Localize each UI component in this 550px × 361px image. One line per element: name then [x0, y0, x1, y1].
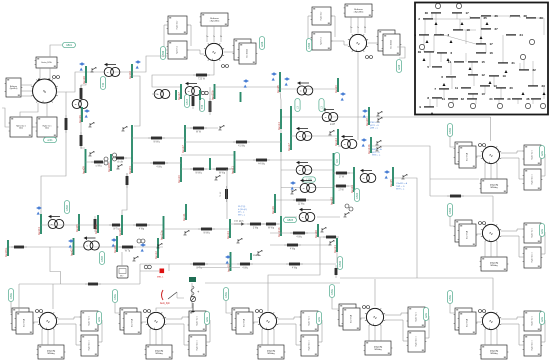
- svg-text:bus25b: bus25b: [210, 90, 214, 100]
- series RLC branch: [189, 277, 200, 312]
- breaker glyph: [376, 117, 382, 122]
- goto tag capG1: [447, 291, 452, 304]
- inset bus 3: [434, 33, 450, 37]
- line impedance L20a: [290, 232, 308, 239]
- wire 155-row: [181, 154, 235, 156]
- svg-text:W Tq: W Tq: [196, 268, 202, 270]
- svg-text:Hydro Gov: Hydro Gov: [177, 21, 179, 30]
- svg-text:Hydro Gov 1: Hydro Gov 1: [197, 340, 199, 350]
- svg-text:bus17: bus17: [181, 145, 185, 153]
- goto tag G7r: [423, 308, 428, 321]
- goto tag c2: [447, 124, 452, 137]
- bus bus10: [226, 252, 230, 272]
- breaker glyph: [116, 164, 122, 169]
- bus bus28: [365, 107, 369, 126]
- inset generator g: [520, 54, 525, 59]
- inset generator g: [435, 3, 440, 8]
- goto tag g7: [99, 252, 104, 265]
- svg-text:bus11: bus11: [182, 213, 186, 221]
- inset load arrow: [426, 40, 429, 43]
- wire 146-row to feeder: [372, 146, 430, 196]
- svg-text:4 Wq: 4 Wq: [292, 268, 298, 270]
- wire 245-row: [270, 244, 330, 246]
- wire tag to G4: [11, 302, 12, 314]
- svg-text:Ta: Ta: [357, 27, 359, 29]
- svg-text:≈: ≈: [363, 176, 365, 180]
- synchronous machine G3: [454, 220, 545, 271]
- fault breaker: [160, 290, 184, 305]
- wire staircase: [50, 247, 61, 284]
- svg-text:21: 21: [512, 61, 516, 65]
- wire 278-row: [340, 277, 414, 279]
- breaker glyph: [375, 140, 381, 145]
- goto tag t30: [100, 77, 105, 90]
- svg-text:4 Wq: 4 Wq: [139, 229, 145, 231]
- svg-text:20: 20: [510, 86, 514, 90]
- svg-text:29: 29: [540, 16, 544, 20]
- inset bus 7: [434, 87, 449, 91]
- bus bus24: [334, 129, 338, 146]
- svg-text:∿: ∿: [373, 315, 377, 321]
- goto tag t9l: [306, 39, 311, 52]
- svg-text:∿: ∿: [489, 231, 493, 237]
- svg-text:cf cfa: cf cfa: [117, 162, 123, 164]
- svg-text:36: 36: [526, 97, 530, 101]
- inset bus 34: [489, 97, 504, 101]
- bus bus06a: [94, 215, 98, 234]
- bus bus02: [128, 64, 132, 79]
- goto tag t9r: [396, 60, 401, 73]
- inset bus 12: [468, 73, 485, 77]
- wire G8 drop: [152, 62, 214, 88]
- svg-text:bus03: bus03: [128, 166, 132, 174]
- line impedance L10b: [237, 263, 253, 270]
- svg-text:11: 11: [455, 86, 458, 90]
- bus bus24b: [367, 137, 371, 154]
- inset bus 30: [425, 11, 441, 15]
- feeder wire G3: [492, 196, 494, 222]
- line impedance L17v: [192, 93, 195, 109]
- svg-text:Exc ST1A: Exc ST1A: [466, 230, 469, 239]
- inset load arrow: [431, 112, 434, 115]
- svg-text:_A_: _A_: [152, 327, 156, 330]
- svg-text:bus24: bus24: [334, 138, 338, 146]
- measurement arrows: [290, 181, 296, 189]
- svg-text:wr0x: wr0x: [541, 150, 544, 156]
- svg-text:Hydro Gov 1: Hydro Gov 1: [89, 340, 91, 350]
- line impedance L20b: [323, 236, 339, 239]
- bus bus03: [128, 125, 132, 174]
- line impedance L22b: [333, 185, 349, 192]
- line impedance L31a: [85, 283, 101, 286]
- instrument pair: [345, 204, 353, 211]
- inset bus 13: [480, 84, 497, 88]
- bus bus13: [226, 219, 230, 239]
- svg-text:[Gbp/wRj]MW/deg: [Gbp/wRj]MW/deg: [490, 185, 499, 189]
- wire 142-row: [185, 141, 281, 143]
- bus bus11: [182, 204, 186, 221]
- svg-text:Exc ST1A: Exc ST1A: [466, 152, 469, 161]
- wire T20 e: [317, 216, 340, 218]
- svg-text:W Wq: W Wq: [219, 173, 226, 175]
- inset bus 21: [498, 61, 515, 65]
- breaker glyph: [343, 212, 349, 217]
- wire 264-row: [140, 263, 336, 265]
- bus bus12: [154, 238, 158, 259]
- wire 87-row east: [215, 86, 281, 88]
- svg-text:Hydro Gov 1: Hydro Gov 1: [532, 252, 534, 262]
- inset bus 23: [528, 84, 545, 88]
- bus bus35: [389, 167, 393, 187]
- svg-text:_A_: _A_: [487, 239, 491, 242]
- transformer T7: [84, 236, 100, 250]
- bus bus09: [81, 149, 85, 174]
- wire 72-row: [66, 72, 132, 92]
- inset bus 19: [489, 74, 506, 78]
- wire to tag: [50, 45, 62, 57]
- wire 284-row: [19, 283, 140, 285]
- inset load arrow: [486, 22, 489, 25]
- bus bus14b: [280, 133, 282, 152]
- bus bus31: [333, 238, 337, 253]
- transformer T39: [72, 99, 88, 108]
- bus bus30: [82, 66, 86, 84]
- wire G9 long drop: [357, 53, 359, 141]
- bus bus19: [271, 194, 275, 214]
- svg-text:39: 39: [418, 50, 422, 54]
- wire 162-row: [86, 158, 133, 162]
- feeder G1: [414, 278, 493, 310]
- transformer T28: [322, 108, 338, 122]
- line impedance L16b: [213, 168, 231, 175]
- svg-text:T30: T30: [102, 82, 105, 87]
- wire 169-row: [181, 168, 235, 170]
- inset connector web: [431, 13, 433, 19]
- svg-text:≈: ≈: [303, 186, 305, 190]
- inset generator g: [470, 103, 475, 108]
- bus bus16t: [199, 90, 201, 100]
- wire 170-row: [281, 169, 334, 171]
- svg-text:Exc ST1A: Exc ST1A: [243, 318, 246, 327]
- transformer T23: [360, 169, 376, 183]
- inset load arrow: [522, 92, 525, 95]
- svg-text:∿: ∿: [46, 319, 50, 325]
- svg-text:wr0x: wr0x: [541, 228, 544, 234]
- breaker circles: [201, 91, 208, 94]
- goto tag t8r: [259, 37, 264, 50]
- bus bus32: [250, 253, 252, 260]
- breaker glyph: [256, 250, 262, 255]
- wire to T24: [338, 145, 344, 147]
- svg-text:P/W bar: P/W bar: [253, 254, 261, 257]
- bus bus22: [329, 153, 333, 205]
- inset bus 11: [455, 86, 471, 90]
- inset bus 36: [526, 97, 541, 101]
- svg-text:17 W: 17 W: [338, 190, 344, 192]
- line impedance L9L: [11, 246, 27, 249]
- svg-text:GB03: GB03: [449, 207, 452, 214]
- inset bus 31: [442, 97, 458, 101]
- wire drop x140: [132, 76, 140, 126]
- svg-text:wr09: wr09: [398, 64, 401, 70]
- goto tag capG4: [8, 289, 13, 302]
- line impedance L6b: [133, 224, 150, 231]
- goto tag w10: [44, 137, 57, 142]
- inset load arrow: [450, 40, 453, 43]
- svg-text:Hydro Tur 1: Hydro Tur 1: [532, 228, 534, 237]
- synchronous machine G9: [308, 4, 401, 59]
- line impedance L17c: [233, 141, 250, 148]
- line impedance L3a: [148, 137, 165, 144]
- line impedance L13b: [263, 223, 279, 230]
- bus bus08t: [107, 154, 111, 172]
- line impedance Lv2: [80, 132, 83, 149]
- goto tag capG5: [112, 290, 117, 303]
- svg-text:10: 10: [482, 92, 486, 96]
- svg-text:3 Wq: 3 Wq: [253, 228, 259, 230]
- svg-text:GB01: GB01: [66, 44, 73, 47]
- svg-text:[Gbp/wRj]MW/deg: [Gbp/wRj]MW/deg: [47, 351, 56, 355]
- svg-text:Ta: Ta: [213, 36, 215, 38]
- svg-text:≈: ≈: [302, 215, 304, 219]
- goto tag cp1: [295, 99, 300, 112]
- svg-text:∿: ∿: [489, 153, 493, 159]
- svg-text:n22: n22: [336, 158, 339, 163]
- transformer T26: [296, 127, 312, 141]
- svg-text:34: 34: [489, 97, 493, 101]
- svg-text:4 Wq: 4 Wq: [156, 167, 162, 169]
- line impedance L9a: [91, 161, 106, 168]
- breaker glyph: [214, 175, 220, 180]
- svg-text:[Gbp/wRj]MW/deg: [Gbp/wRj]MW/deg: [155, 351, 164, 355]
- svg-text:Hydro Gov 1: Hydro Gov 1: [532, 174, 534, 184]
- svg-text:bus08t: bus08t: [107, 163, 111, 172]
- svg-text:bus07: bus07: [69, 248, 73, 256]
- svg-text:wr0x: wr0x: [98, 316, 101, 322]
- svg-text:bus06: bus06: [118, 228, 122, 236]
- wire tag to G7: [332, 298, 339, 310]
- goto tag G2r: [539, 146, 544, 159]
- svg-text:22: 22: [533, 68, 537, 72]
- line impedance L34a: [447, 195, 464, 198]
- wire gov feedback: [2, 108, 10, 127]
- wire red stub: [140, 270, 159, 272]
- svg-text:bus09L: bus09L: [4, 247, 8, 257]
- synchronous machine G10: [5, 57, 60, 103]
- inset bus 5: [427, 65, 442, 69]
- bus bus06: [118, 215, 122, 236]
- bus bus07: [69, 238, 73, 256]
- transformer T17: [154, 89, 170, 98]
- bus bus26: [334, 78, 338, 93]
- measurement arrows: [384, 170, 390, 178]
- bus bus16: [177, 157, 181, 183]
- breaker glyph: [183, 230, 189, 235]
- svg-text:≈: ≈: [325, 115, 327, 119]
- bus bus04: [37, 214, 41, 235]
- bus bus21b: [277, 216, 281, 237]
- svg-text:L30B: L30B: [306, 179, 312, 182]
- goto tag capG6: [223, 288, 228, 301]
- svg-text:≈: ≈: [86, 244, 88, 248]
- breaker glyph: [90, 67, 96, 72]
- svg-text:W W: W W: [196, 132, 202, 134]
- inset bus 27: [481, 27, 498, 31]
- svg-text:[Gbp/wRj]MW/deg: [Gbp/wRj]MW/deg: [490, 351, 499, 355]
- wire busE drop: [122, 173, 127, 215]
- svg-text:17 W: 17 W: [339, 177, 345, 179]
- instrument pair: [104, 157, 108, 165]
- wire stub: [152, 93, 158, 95]
- line impedance L25a: [193, 74, 210, 81]
- feeder G4: [52, 284, 54, 309]
- measurement block: [117, 266, 128, 278]
- measurement arrows: [84, 109, 90, 117]
- goto tag gt17: [184, 95, 189, 108]
- goto tag G3r: [539, 224, 544, 237]
- line impedance Lw: [65, 115, 68, 133]
- bus bus17t: [175, 90, 177, 100]
- svg-text:Lm1 p/p/s: Lm1 p/p/s: [234, 221, 245, 223]
- svg-text:4 Wq: 4 Wq: [242, 268, 248, 270]
- wire G9 cap: [397, 47, 405, 58]
- svg-text:bus37: bus37: [177, 92, 181, 100]
- instrument pair: [137, 239, 145, 243]
- inset bus 20: [496, 86, 513, 90]
- inset load arrow: [489, 81, 492, 84]
- measurement arrows: [36, 206, 42, 214]
- line impedance Lv3: [209, 98, 212, 115]
- svg-text:12: 12: [482, 73, 486, 77]
- svg-text:Hydro Tur 1: Hydro Tur 1: [532, 316, 534, 325]
- svg-text:bus31: bus31: [333, 245, 337, 253]
- inset load arrow: [443, 83, 446, 86]
- svg-text:≈: ≈: [107, 70, 109, 74]
- svg-text:17: 17: [466, 11, 470, 15]
- svg-text:_A_: _A_: [487, 327, 491, 330]
- svg-text:W Wq: W Wq: [153, 142, 160, 144]
- svg-text:W Wq: W Wq: [195, 173, 202, 175]
- bus bus12a: [159, 216, 163, 240]
- svg-text:cf Wq: cf Wq: [96, 166, 103, 168]
- svg-text:wr0x: wr0x: [318, 316, 321, 322]
- inset bus 1: [414, 33, 429, 37]
- svg-text:_A_: _A_: [371, 323, 375, 326]
- inset bus 6: [437, 51, 453, 55]
- bus bus14: [277, 109, 281, 130]
- breaker glyph: [218, 125, 224, 130]
- goto tag G1r: [539, 312, 544, 325]
- svg-text:wr01: wr01: [47, 139, 53, 142]
- svg-text:bus27: bus27: [287, 143, 291, 151]
- svg-text:bus16: bus16: [177, 175, 181, 183]
- svg-text:W Tq: W Tq: [125, 251, 131, 253]
- wire stub 186: [334, 185, 355, 187]
- svg-text:bus24b: bus24b: [367, 144, 371, 154]
- svg-text:11 Wq: 11 Wq: [298, 204, 305, 206]
- svg-text:Exc ST1A: Exc ST1A: [23, 318, 26, 327]
- svg-text:W Wq: W Wq: [268, 228, 275, 230]
- measurement arrows: [361, 138, 367, 146]
- wire 233-row: [270, 232, 318, 234]
- svg-text:Hydro Tur: Hydro Tur: [321, 37, 323, 45]
- inset bus 16: [476, 51, 493, 55]
- measurement arrows: [135, 60, 141, 68]
- phasor arrow: [234, 221, 245, 226]
- inset load arrow: [469, 67, 472, 70]
- inset load arrow: [461, 22, 464, 25]
- inset load arrow: [505, 70, 508, 73]
- svg-text:19: 19: [503, 74, 507, 78]
- wire 163-row: [132, 162, 181, 164]
- svg-text:Hydro Tur: Hydro Tur: [177, 46, 179, 54]
- line impedance Lv1: [80, 85, 83, 102]
- wire 200-row: [275, 199, 334, 201]
- svg-text:∿: ∿: [489, 319, 493, 325]
- wire v 281a: [280, 129, 282, 133]
- inset bus 28: [510, 14, 527, 18]
- svg-text:16: 16: [490, 51, 494, 55]
- instrument pair: [113, 153, 117, 161]
- goto tag c3: [447, 204, 452, 217]
- line impedance L21x: [253, 159, 270, 166]
- inset bus 33: [507, 97, 522, 101]
- goto tag g22t: [334, 153, 339, 166]
- wire 136-row: [291, 135, 338, 137]
- svg-text:bus35: bus35: [389, 179, 393, 187]
- line impedance L13a: [247, 223, 264, 230]
- wire v227: [226, 169, 228, 219]
- synchronous machine G1: [454, 308, 545, 359]
- svg-text:GB04: GB04: [66, 204, 69, 211]
- svg-text:GB09: GB09: [308, 42, 311, 49]
- svg-text:wr0x: wr0x: [425, 312, 428, 318]
- svg-text:∿: ∿: [266, 319, 270, 325]
- goto tag g4: [64, 201, 69, 214]
- wire 224-row: [230, 223, 281, 225]
- bus bus05: [75, 214, 79, 232]
- wire 117-row: [281, 116, 491, 118]
- goto tag G4r: [96, 312, 101, 325]
- wire 160-row: [235, 159, 333, 161]
- feeder wire G2: [490, 117, 492, 141]
- line impedance L10a: [190, 263, 208, 270]
- wire drop 16: [199, 100, 201, 111]
- measurement arrows: [225, 255, 231, 263]
- svg-text:≈: ≈: [299, 168, 301, 172]
- inset generator g: [540, 103, 545, 108]
- transformer T30: [104, 63, 120, 77]
- wire v417: [394, 178, 417, 278]
- svg-text:Hydro Gov 1: Hydro Gov 1: [309, 340, 311, 350]
- svg-text:Hydro Gov 1: Hydro Gov 1: [532, 340, 534, 350]
- breaker glyph: [236, 238, 242, 243]
- svg-text:∿: ∿: [212, 50, 216, 56]
- inset bus 39: [418, 50, 434, 54]
- inset generator g: [525, 103, 530, 108]
- line impedance Lv6: [94, 216, 97, 232]
- wire 89-row far east: [280, 88, 338, 90]
- svg-text:Hydro Gov 1: Hydro Gov 1: [416, 336, 418, 346]
- svg-text:27: 27: [495, 27, 499, 31]
- wire 247-row: [8, 246, 163, 248]
- svg-text:bus25: bus25: [276, 85, 280, 93]
- inset bus 24: [506, 33, 523, 37]
- svg-text:Exc DC1A: Exc DC1A: [390, 40, 393, 49]
- inset bus 22: [519, 68, 536, 72]
- inset bus 29: [526, 16, 543, 20]
- svg-text:Exc ST1A: Exc ST1A: [131, 318, 134, 327]
